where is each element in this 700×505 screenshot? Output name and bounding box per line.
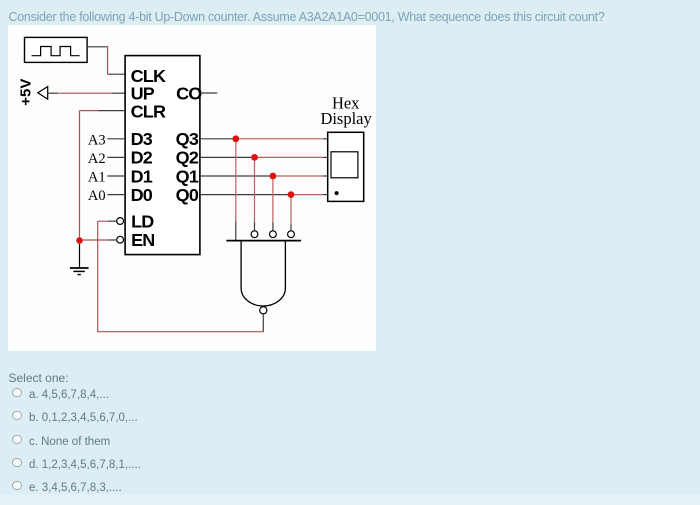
hex display U3 [328, 132, 364, 201]
wire A2 to D2 [107, 156, 125, 158]
wire A0 to D0 [107, 193, 125, 195]
wire junction to EN [83, 239, 117, 241]
NAND gate U2 input bar [226, 239, 301, 241]
wire Q3 to display [200, 138, 328, 140]
svg-text:D0: D0 [130, 185, 152, 205]
circuit panel [8, 25, 377, 351]
svg-text:A2: A2 [88, 151, 106, 167]
svg-text:+5V: +5V [17, 78, 34, 105]
svg-text:A0: A0 [88, 188, 106, 204]
svg-text:A3: A3 [88, 132, 106, 148]
wire CO output [200, 92, 217, 94]
wire Q0 drop to gate [290, 198, 292, 231]
wire Q1 drop to gate [272, 179, 274, 230]
wire CLR to ground net [79, 110, 125, 237]
svg-text:D2: D2 [130, 147, 152, 167]
NAND gate U2 output bubble [260, 306, 267, 313]
wire Q1 to display [200, 175, 328, 177]
svg-text:D1: D1 [130, 166, 152, 186]
svg-text:EN: EN [131, 230, 154, 250]
wire A3 to D3 [107, 138, 125, 140]
pin bubble LD [117, 217, 124, 224]
option a [12, 388, 109, 401]
pin bubble gate input 2 [251, 231, 258, 238]
wire Q2 to display [200, 156, 328, 158]
junction Q3 [232, 135, 239, 142]
junction Q0 [287, 191, 294, 198]
junction ground net [76, 237, 83, 244]
option d [12, 458, 141, 471]
svg-text:Q1: Q1 [176, 166, 199, 186]
svg-text:Q2: Q2 [176, 147, 199, 167]
option c [12, 435, 110, 448]
bottom strip [0, 494, 700, 505]
junction Q2 [251, 154, 258, 161]
option e [12, 481, 121, 494]
hex display label [320, 93, 372, 127]
ground [70, 244, 89, 275]
svg-text:CLR: CLR [130, 101, 165, 121]
hex display decimal point [334, 191, 338, 195]
clock source V1 [24, 37, 87, 62]
svg-text:LD: LD [131, 211, 154, 231]
svg-text:D3: D3 [130, 129, 152, 149]
wire Q2 drop to gate [253, 161, 255, 231]
wire Q3 drop to gate [235, 142, 237, 240]
svg-text:A1: A1 [88, 169, 106, 185]
wire clock to CLK [87, 46, 125, 74]
pin bubble gate input 3 [269, 231, 276, 238]
question title [9, 10, 605, 24]
select one prompt [9, 371, 69, 385]
NAND gate U2 body [241, 240, 285, 305]
svg-text:CO: CO [176, 83, 202, 103]
pin bubble EN [117, 236, 124, 243]
wire +5V to UP [48, 92, 125, 94]
pin bubble gate input 4 [287, 231, 294, 238]
wire A1 to D1 [107, 175, 125, 177]
wire gate output to LD [98, 221, 264, 332]
svg-text:Q0: Q0 [176, 185, 199, 205]
wire Q0 to display [200, 193, 328, 195]
counter U1 body [125, 55, 200, 254]
svg-text:Display: Display [320, 109, 372, 128]
power +5V [17, 78, 47, 105]
option b [12, 411, 137, 424]
svg-text:Q3: Q3 [176, 129, 199, 149]
junction Q1 [269, 172, 276, 179]
